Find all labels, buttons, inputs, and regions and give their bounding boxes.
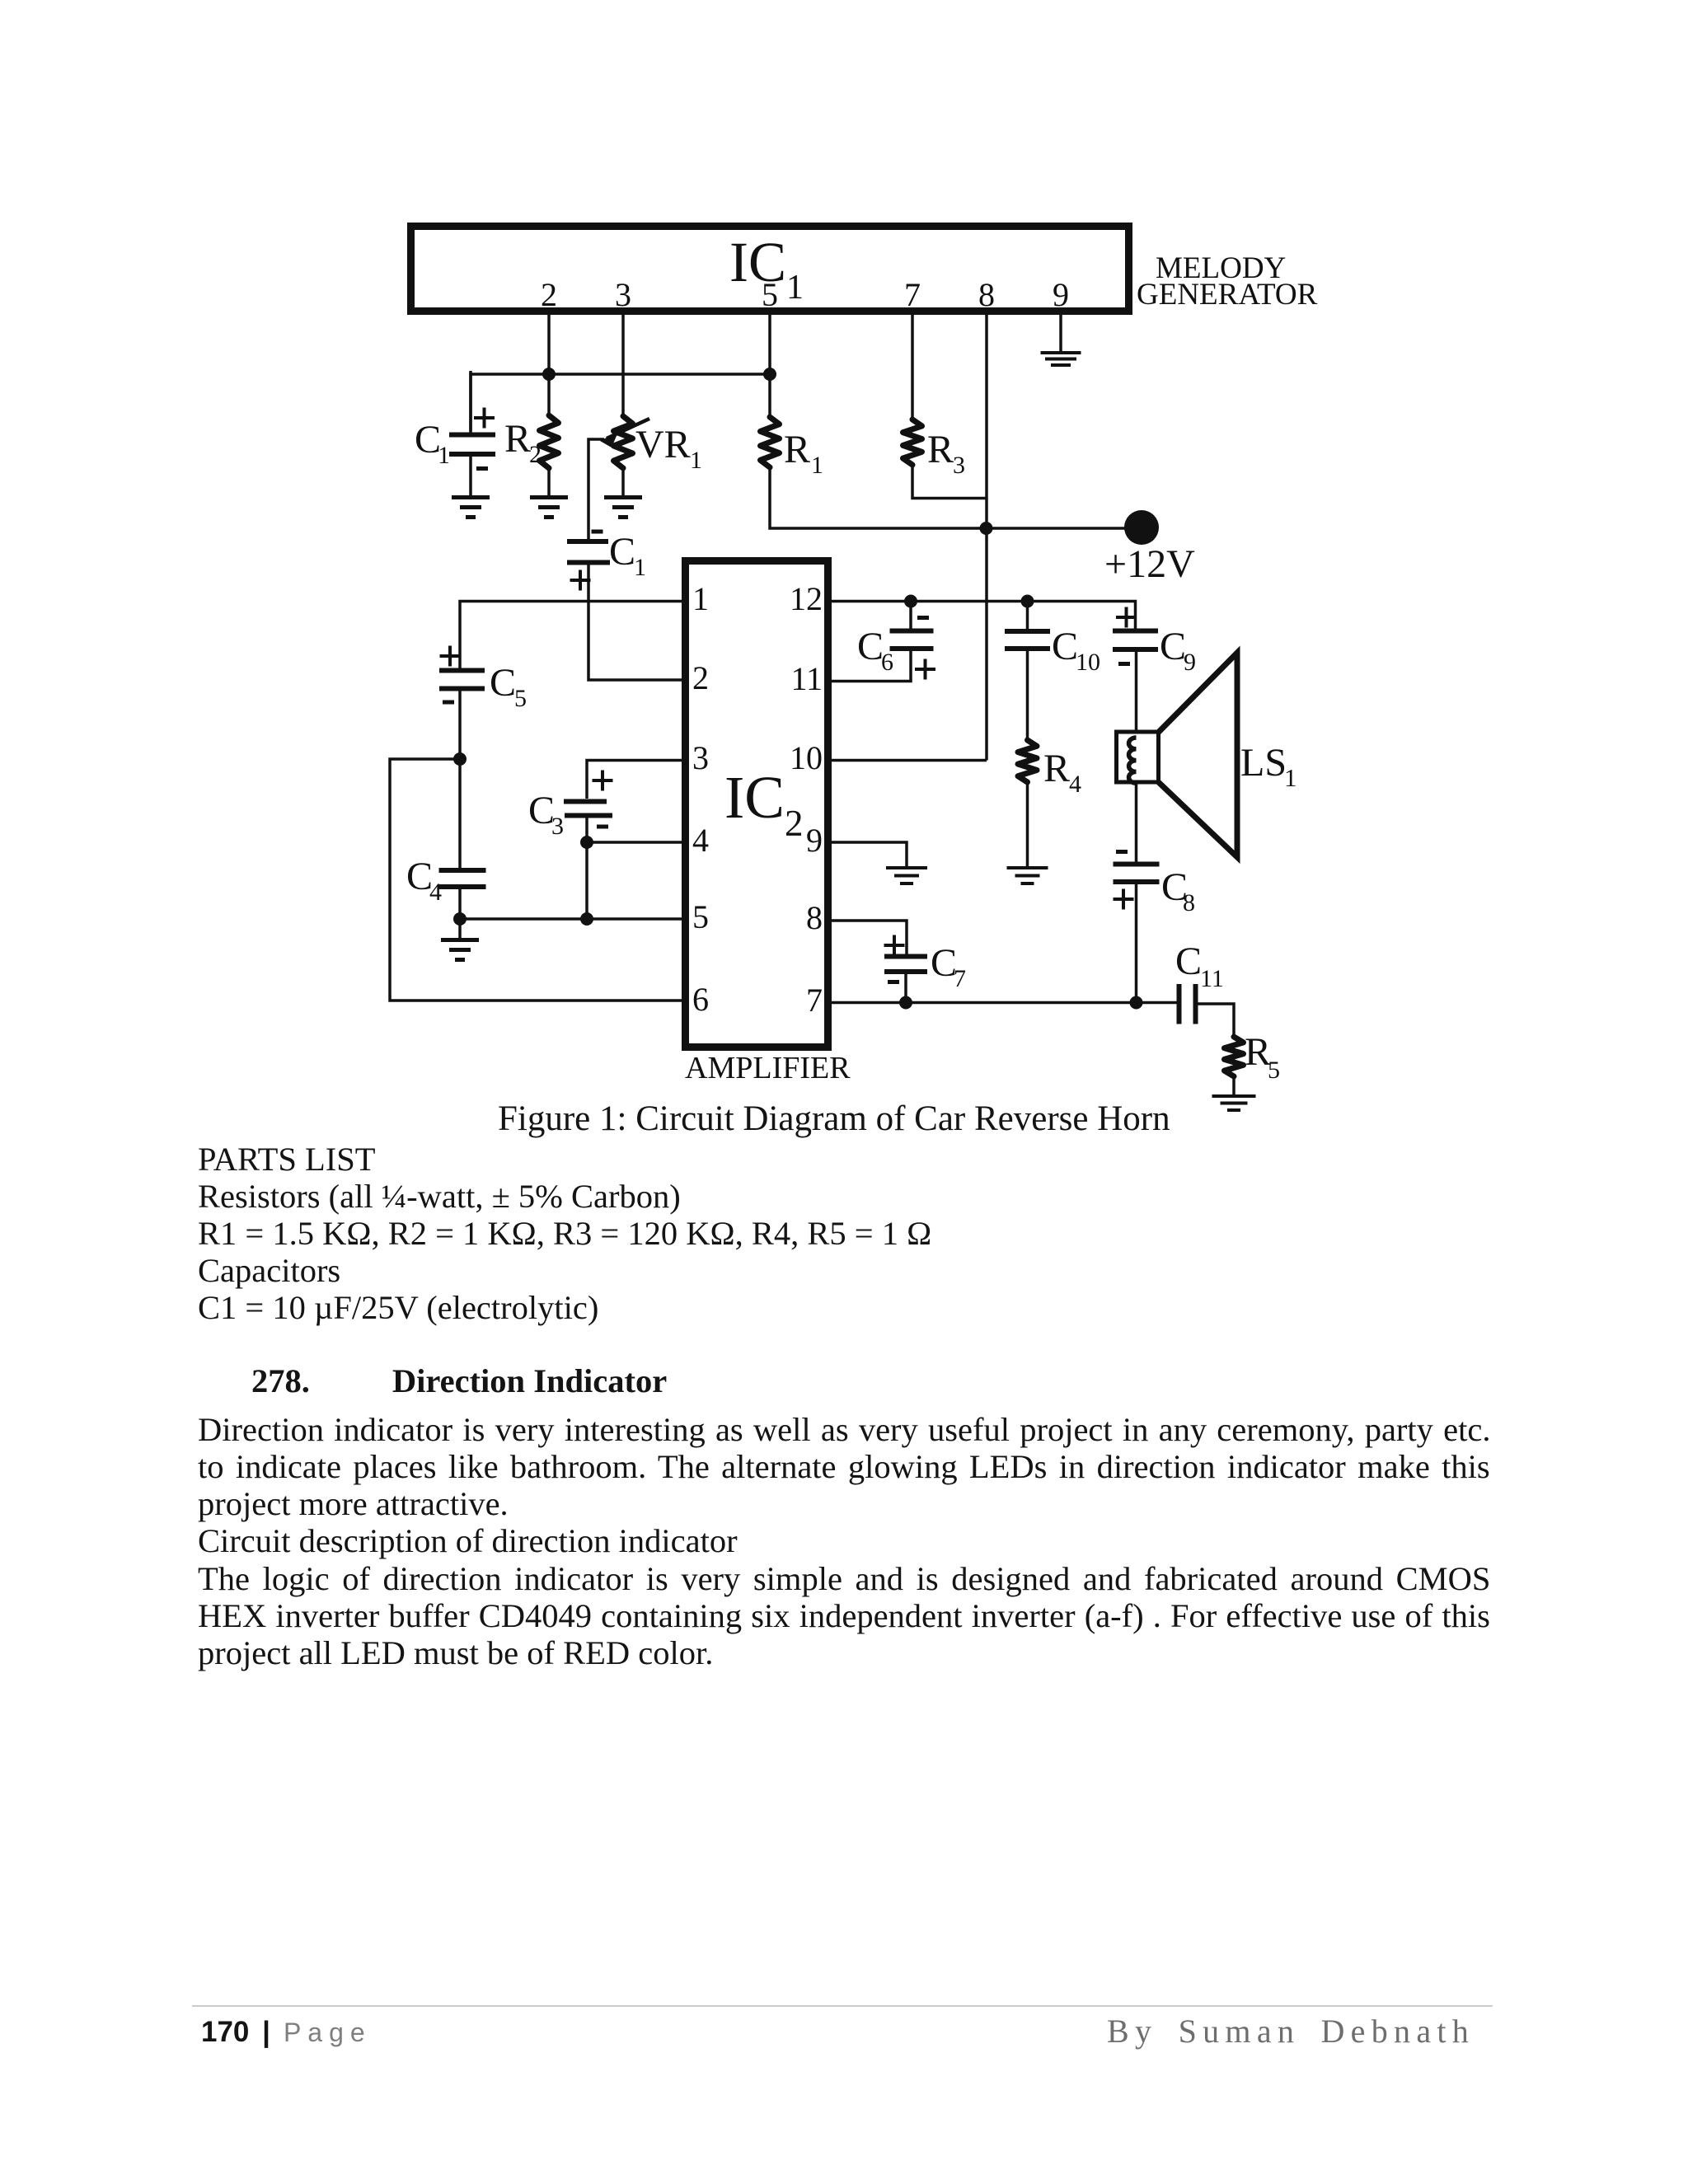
svg-text:2: 2 (541, 276, 557, 313)
node C5/C4 junction (453, 752, 467, 766)
wire IC2 pin9 to ground (832, 842, 907, 868)
wire VR1 wiper to C1b (588, 439, 604, 539)
svg-text:12: 12 (790, 580, 823, 617)
svg-text:C: C (609, 530, 635, 574)
ground under C4 (458, 919, 462, 940)
wire top bus pins 2-5 (471, 374, 770, 431)
wire IC2 pin5 (460, 917, 682, 921)
ground under R5 (1212, 1094, 1256, 1098)
svg-text:C: C (1160, 625, 1186, 668)
loudspeaker LS1 (1117, 732, 1159, 782)
svg-text:C: C (1052, 625, 1078, 668)
parts list (198, 1143, 376, 1177)
ground IC2 pin9 (886, 866, 927, 869)
ground IC1 pin9 (1041, 351, 1081, 354)
wire C11 to R5 (1198, 1004, 1235, 1038)
svg-text:1: 1 (786, 269, 804, 307)
svg-text:5: 5 (692, 898, 709, 935)
svg-text:9: 9 (806, 822, 823, 859)
svg-text:5: 5 (762, 276, 778, 313)
resistor R2 (540, 415, 559, 468)
node pin5 mid junction (580, 912, 593, 926)
node +12V supply terminal (1124, 510, 1159, 545)
VR1 wiper arrow (607, 419, 649, 438)
wire speaker to C8 (1135, 782, 1138, 862)
svg-text:10: 10 (1076, 649, 1100, 676)
svg-text:C: C (1175, 940, 1202, 983)
node C4/pin5 junction (453, 912, 467, 926)
wire C3 to pin4/pin5 (585, 818, 588, 920)
svg-text:2: 2 (529, 441, 542, 468)
wire C9 to speaker coil (1135, 652, 1138, 733)
svg-text:9: 9 (1053, 276, 1069, 313)
figure caption (498, 1101, 1170, 1137)
wire R3 bottom U to pin8 line (912, 465, 987, 499)
capacitor C4 (439, 868, 486, 873)
node C8 junction (1130, 996, 1143, 1010)
section heading (251, 1365, 667, 1399)
svg-text:4: 4 (429, 879, 442, 906)
wire IC1 pin5 / R1 column (768, 315, 771, 417)
node +12V rail junction (980, 522, 993, 535)
potentiometer VR1 (614, 416, 633, 468)
svg-text:1: 1 (692, 580, 709, 617)
capacitor C1 (near IC1 pin2) (469, 371, 472, 433)
wire IC2 pin12 supply bus (832, 602, 1136, 630)
svg-text:1: 1 (634, 554, 646, 581)
svg-text:4: 4 (692, 822, 709, 859)
capacitor C11 (1177, 984, 1182, 1024)
wire feedback loop to IC2 pin6 (390, 759, 682, 1001)
wire IC1 pin7 to R3 (911, 315, 914, 419)
footer (192, 2005, 1493, 2007)
svg-text:LS: LS (1240, 741, 1287, 785)
resistor R5 (1225, 1037, 1244, 1076)
IC U1 (IC1 melody generator box) (411, 227, 1129, 312)
resistor R4 (1018, 740, 1037, 782)
svg-text:3: 3 (615, 276, 631, 313)
svg-text:C: C (490, 661, 516, 705)
svg-text:6: 6 (881, 649, 893, 676)
svg-text:5: 5 (514, 685, 527, 712)
svg-text:7: 7 (954, 965, 966, 992)
svg-text:5: 5 (1268, 1057, 1280, 1084)
svg-text:1: 1 (811, 452, 823, 479)
svg-text:9: 9 (1184, 649, 1196, 676)
svg-text:1: 1 (690, 447, 702, 474)
svg-text:R: R (784, 428, 810, 471)
wire IC1 pin9 ground stub (1059, 315, 1062, 353)
wire C5 junction down to C4 (458, 759, 462, 869)
svg-text:AMPLIFIER: AMPLIFIER (685, 1051, 851, 1085)
capacitor C8 (1114, 862, 1160, 867)
svg-text:3: 3 (551, 813, 564, 840)
node C3/pin4 junction (580, 836, 593, 849)
ground under R2 (530, 495, 568, 499)
capacitor C7 (884, 954, 927, 959)
svg-text:6: 6 (692, 981, 709, 1018)
wire bus to R2 (547, 374, 551, 417)
node bus-pin5 junction (763, 368, 776, 381)
node C10 junction (1021, 595, 1034, 608)
wire IC2 pin7 output bus (832, 1001, 1179, 1005)
capacitor C3 (564, 799, 607, 804)
svg-text:+12V: +12V (1104, 542, 1195, 586)
wire IC2 pin10 horizontal (832, 759, 987, 762)
svg-text:7: 7 (904, 276, 921, 313)
ground under VR1 (604, 495, 642, 499)
wire IC2 pin4 (587, 841, 682, 844)
capacitor C5 (439, 668, 485, 673)
ground under C1 (452, 495, 490, 499)
svg-text:11: 11 (1200, 965, 1224, 992)
resistor R3 (903, 419, 922, 465)
wire IC1 pin3 to VR1 (621, 315, 625, 416)
svg-text:R: R (1043, 747, 1070, 790)
wire C10 to R4 (1026, 651, 1029, 741)
wire C6 to IC2 pin11 (832, 651, 911, 682)
svg-text:GENERATOR: GENERATOR (1137, 278, 1318, 312)
capacitor C1 (coupling to IC2 pin2) (567, 539, 608, 544)
svg-text:R: R (504, 417, 531, 461)
node bus-pin2 junction (542, 368, 556, 381)
svg-text:1: 1 (438, 442, 450, 469)
svg-text:10: 10 (790, 739, 823, 776)
svg-text:3: 3 (953, 452, 965, 479)
svg-text:2: 2 (785, 803, 804, 844)
svg-text:3: 3 (692, 739, 709, 776)
node C7 junction (899, 996, 912, 1010)
svg-text:7: 7 (806, 982, 823, 1019)
svg-text:VR: VR (635, 423, 691, 466)
svg-text:8: 8 (806, 899, 823, 936)
IC U2 (IC2 amplifier box) (686, 561, 828, 1047)
svg-text:1: 1 (1284, 763, 1297, 792)
wire IC1 pin8 vertical to IC2 pin10 (985, 315, 988, 761)
wire IC2 pin3 to C3 (587, 761, 682, 799)
wire IC2 pin8 to C7 (832, 921, 907, 954)
svg-text:4: 4 (1069, 771, 1081, 798)
ground under R4 (1007, 866, 1048, 869)
resistor R1 (761, 417, 780, 467)
svg-text:11: 11 (790, 660, 823, 697)
svg-text:8: 8 (978, 276, 995, 313)
wire C8 to pin7 bus (1135, 884, 1138, 1004)
wire R1 to +12V rail (770, 467, 1142, 528)
capacitor C6 (909, 602, 912, 630)
node C6 junction (904, 595, 917, 608)
svg-text:R: R (927, 428, 954, 471)
svg-text:8: 8 (1183, 889, 1195, 916)
capacitor C10 (1026, 602, 1029, 630)
wire IC1 pin2 stub (547, 315, 551, 376)
svg-text:IC: IC (724, 764, 785, 831)
wire IC2 pin1 to C5 (460, 602, 682, 670)
svg-text:C: C (857, 625, 884, 668)
svg-text:2: 2 (692, 659, 709, 696)
wire C1b to IC2 pin2 (588, 565, 682, 680)
paragraph (198, 1413, 1490, 1447)
capacitor C9 (1113, 629, 1158, 634)
